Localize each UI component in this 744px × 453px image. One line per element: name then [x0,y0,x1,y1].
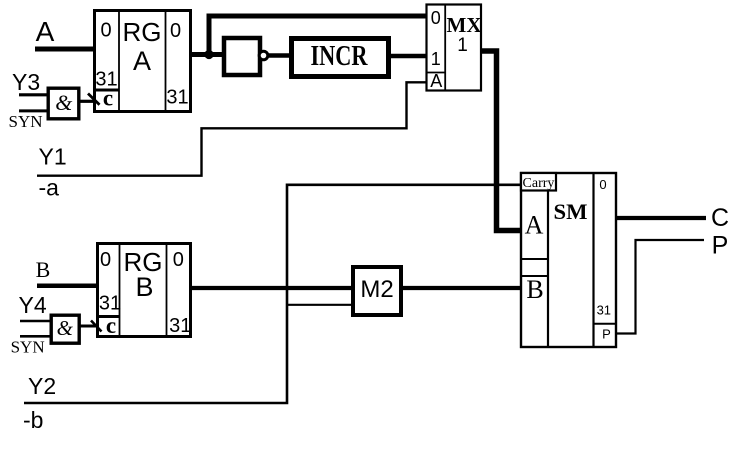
wire SM P output [616,240,704,334]
svg-text:1: 1 [457,35,468,56]
AND gate (Y3 & SYN) [48,88,79,119]
svg-text:0: 0 [170,20,181,42]
wire INCR output to MX input 1 [389,54,427,59]
svg-text:RG: RG [123,17,162,47]
svg-text:INCR: INCR [311,41,369,72]
wire Y3 input [19,93,48,96]
svg-text:c: c [106,313,116,338]
wire riser from junction to top rail [207,16,212,55]
AND gate (Y4 & SYN) [51,315,79,343]
wire A input to RG A [35,47,95,52]
svg-text:31: 31 [166,87,188,109]
wire top rail to MX input 0 [207,14,428,19]
svg-text:SM: SM [554,199,588,224]
multiplexer MX [426,4,482,92]
svg-text:0: 0 [100,20,111,42]
wire AND output to c input of RG B [79,325,96,328]
svg-text:A: A [525,211,544,240]
wire SYN input [19,109,48,112]
adder SM [520,172,616,348]
svg-text:A: A [133,46,151,76]
inverter (NOT gate) [224,38,268,75]
register RG A [93,9,191,112]
clock edge slash on RG B c input [91,321,102,332]
wire M2 output to SM B input [403,286,521,290]
svg-text:A: A [36,16,55,47]
wire AND output to c input of RG A [78,100,94,103]
svg-text:Y2: Y2 [28,373,56,399]
svg-text:0: 0 [431,8,441,28]
node junction dot [204,50,213,59]
wire B input to RG B [37,283,98,288]
svg-text:-a: -a [39,175,60,201]
svg-text:31: 31 [597,303,611,318]
svg-text:P: P [602,327,611,342]
svg-text:P: P [712,232,729,260]
svg-text:MX: MX [447,13,482,37]
svg-text:0: 0 [173,249,184,271]
wire branch to M2 [287,304,352,306]
Carry cell [521,173,556,191]
clock edge slash on RG A c input [88,94,100,105]
svg-text:M2: M2 [360,276,393,303]
block M2 [353,267,401,315]
register RG B [96,242,191,338]
wire inverter to INCR [268,53,292,58]
wire Y2 line up to carry line into SM Carry [24,185,520,403]
block INCR [292,39,389,77]
wire SYN input (bottom) [20,335,51,338]
svg-text:B: B [526,275,543,304]
wire Y4 input [20,320,51,323]
svg-text:31: 31 [169,315,191,337]
svg-text:&: & [55,90,73,115]
wire MX output to SM A input [482,51,520,231]
svg-text:Carry: Carry [523,176,555,191]
wire RG B output to M2 [190,286,353,290]
svg-text:c: c [103,86,113,111]
svg-text:0: 0 [599,177,606,192]
wire SM C output [617,216,706,220]
svg-text:SYN: SYN [9,112,43,131]
svg-text:B: B [36,257,51,282]
svg-text:&: & [57,316,74,340]
svg-text:31: 31 [99,292,121,314]
svg-text:C: C [711,204,729,232]
svg-text:Y1: Y1 [39,144,67,170]
svg-text:-b: -b [23,407,43,433]
svg-text:A: A [430,71,442,91]
svg-text:1: 1 [431,49,441,69]
svg-text:0: 0 [100,249,111,271]
svg-text:Y3: Y3 [12,69,40,95]
svg-text:B: B [135,272,153,302]
wire RG A output [190,52,224,57]
svg-text:SYN: SYN [11,338,45,357]
svg-text:Y4: Y4 [19,292,47,318]
wire Y1 select line to MX A input [37,82,426,175]
